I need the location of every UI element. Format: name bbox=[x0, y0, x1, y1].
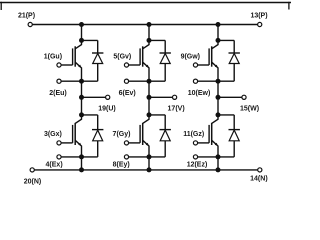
wire: gate lead of Q6 bbox=[198, 142, 210, 144]
wire: gate lead of Q2 bbox=[61, 142, 73, 144]
svg-text:6(Ev): 6(Ev) bbox=[119, 90, 136, 97]
wire: upper emitter to output tap (W) bbox=[217, 81, 219, 97]
transistor Q1 upper U (IGBT) bbox=[73, 40, 82, 81]
svg-text:3(Gx): 3(Gx) bbox=[44, 131, 62, 138]
wire: upper emitter sense (W) bbox=[198, 80, 218, 82]
svg-text:21(P): 21(P) bbox=[18, 12, 35, 19]
svg-text:7(Gy): 7(Gy) bbox=[113, 131, 131, 138]
wire: gate lead of Q1 bbox=[61, 64, 73, 66]
svg-text:12(Ez): 12(Ez) bbox=[187, 162, 208, 169]
svg-text:17(V): 17(V) bbox=[168, 106, 185, 113]
node U: lower emitter junction bbox=[79, 154, 84, 159]
svg-text:1(Gu): 1(Gu) bbox=[44, 53, 62, 60]
node W: lower emitter junction bbox=[216, 154, 221, 159]
wire: gate lead of Q5 bbox=[198, 64, 210, 66]
wire: output lead (U) bbox=[82, 96, 106, 98]
diode D6 lower W (free-wheel) bbox=[229, 115, 240, 157]
wire: lower emitter to diode D6 anode bbox=[218, 156, 234, 158]
terminal 3(Gx) gate pin bbox=[57, 141, 61, 145]
wire: P bus to upper collector (V) bbox=[148, 25, 150, 41]
transistor Q5 upper W (IGBT) bbox=[209, 40, 218, 81]
node W: lower collector junction bbox=[216, 112, 221, 117]
transistor Q4 lower V (IGBT) bbox=[140, 115, 149, 157]
wire: lower emitter to N bus (V) bbox=[148, 157, 150, 170]
terminal 5(Gv) gate pin bbox=[124, 63, 128, 67]
wire: lower collector to diode D4 cathode bbox=[149, 114, 165, 116]
terminal 17(V) output pin bbox=[173, 95, 177, 99]
transistor Q2 lower U (IGBT) bbox=[73, 115, 82, 157]
terminal 7(Gy) gate pin bbox=[124, 141, 128, 145]
wire: upper collector to diode D3 cathode bbox=[149, 39, 165, 41]
terminal 8(Ey) emitter pin bbox=[124, 155, 128, 159]
terminal 11(Gz) gate pin bbox=[193, 141, 197, 145]
node V: upper collector junction bbox=[147, 38, 152, 43]
terminal 9(Gw) gate pin bbox=[193, 63, 197, 67]
wire: upper emitter to diode D1 anode bbox=[82, 80, 98, 82]
wire: output tap to lower collector (V) bbox=[148, 97, 150, 115]
wire: lower emitter to N bus (W) bbox=[217, 157, 219, 170]
terminal 21(P) bbox=[28, 22, 32, 26]
svg-text:13(P): 13(P) bbox=[250, 12, 267, 19]
wire: upper collector to diode D1 cathode bbox=[82, 39, 98, 41]
wire: output tap to lower collector (U) bbox=[81, 97, 83, 115]
wire: upper emitter to output tap (U) bbox=[81, 81, 83, 97]
terminal 19(U) output pin bbox=[106, 95, 110, 99]
terminal 6(Ev) emitter pin bbox=[124, 79, 128, 83]
diode D3 upper V (free-wheel) bbox=[160, 40, 171, 81]
wire: lower emitter sense (W) bbox=[198, 156, 218, 158]
diode D2 lower U (free-wheel) bbox=[92, 115, 103, 157]
terminal 13(P) bbox=[258, 22, 262, 26]
border frame top rule bbox=[0, 2, 291, 4]
transistor Q6 lower W (IGBT) bbox=[209, 115, 218, 157]
wire: upper emitter to output tap (V) bbox=[148, 81, 150, 97]
wire: gate lead of Q3 bbox=[129, 64, 141, 66]
wire: P bus to upper collector (W) bbox=[217, 25, 219, 41]
node W: P-bus junction bbox=[216, 22, 221, 27]
diode D1 upper U (free-wheel) bbox=[92, 40, 103, 81]
wire: lower emitter to N bus (U) bbox=[81, 157, 83, 170]
svg-text:4(Ex): 4(Ex) bbox=[46, 162, 63, 169]
terminal 10(Ew) emitter pin bbox=[193, 79, 197, 83]
wire: N bus (bottom rail) bbox=[34, 169, 257, 171]
wire: output tap to lower collector (W) bbox=[217, 97, 219, 115]
wire: P bus to upper collector (U) bbox=[81, 25, 83, 41]
wire: lower emitter sense (U) bbox=[61, 156, 81, 158]
node W: output tap junction bbox=[216, 95, 221, 100]
svg-text:2(Eu): 2(Eu) bbox=[49, 90, 67, 97]
wire: output lead (W) bbox=[218, 96, 242, 98]
svg-text:8(Ey): 8(Ey) bbox=[113, 162, 130, 169]
node U: N-bus junction bbox=[79, 167, 84, 172]
node V: P-bus junction bbox=[147, 22, 152, 27]
border frame right rule bbox=[288, 2, 290, 10]
wire: lower collector to diode D6 cathode bbox=[218, 114, 234, 116]
wire: lower emitter to diode D2 anode bbox=[82, 156, 98, 158]
wire: lower emitter sense (V) bbox=[129, 156, 149, 158]
node U: output tap junction bbox=[79, 95, 84, 100]
terminal 4(Ex) emitter pin bbox=[57, 155, 61, 159]
wire: P bus (top rail) bbox=[32, 24, 257, 26]
node V: output tap junction bbox=[147, 95, 152, 100]
wire: lower collector to diode D2 cathode bbox=[82, 114, 98, 116]
wire: upper emitter sense (V) bbox=[129, 80, 149, 82]
diode D5 upper W (free-wheel) bbox=[229, 40, 240, 81]
node W: upper collector junction bbox=[216, 38, 221, 43]
svg-text:19(U): 19(U) bbox=[98, 106, 116, 113]
terminal 15(W) output pin bbox=[242, 95, 246, 99]
wire: upper emitter to diode D5 anode bbox=[218, 80, 234, 82]
node W: upper emitter junction bbox=[216, 79, 221, 84]
node W: N-bus junction bbox=[216, 167, 221, 172]
transistor Q3 upper V (IGBT) bbox=[140, 40, 149, 81]
border frame left rule bbox=[0, 2, 2, 10]
terminal 12(Ez) emitter pin bbox=[193, 155, 197, 159]
wire: output lead (V) bbox=[149, 96, 173, 98]
svg-text:20(N): 20(N) bbox=[24, 178, 42, 185]
node V: N-bus junction bbox=[147, 167, 152, 172]
terminal 1(Gu) gate pin bbox=[57, 63, 61, 67]
wire: upper emitter to diode D3 anode bbox=[149, 80, 165, 82]
node U: lower collector junction bbox=[79, 112, 84, 117]
node U: upper emitter junction bbox=[79, 79, 84, 84]
svg-text:9(Gw): 9(Gw) bbox=[181, 53, 200, 60]
svg-text:10(Ew): 10(Ew) bbox=[188, 90, 211, 97]
diode D4 lower V (free-wheel) bbox=[160, 115, 171, 157]
node V: upper emitter junction bbox=[147, 79, 152, 84]
wire: lower emitter to diode D4 anode bbox=[149, 156, 165, 158]
node V: lower emitter junction bbox=[147, 154, 152, 159]
terminal 14(N) bbox=[258, 168, 262, 172]
terminal 2(Eu) emitter pin bbox=[57, 79, 61, 83]
wire: gate lead of Q4 bbox=[129, 142, 141, 144]
node V: lower collector junction bbox=[147, 112, 152, 117]
node U: P-bus junction bbox=[79, 22, 84, 27]
terminal 20(N) bbox=[30, 168, 34, 172]
node U: upper collector junction bbox=[79, 38, 84, 43]
wire: upper emitter sense (U) bbox=[61, 80, 81, 82]
wire: upper collector to diode D5 cathode bbox=[218, 39, 234, 41]
svg-text:11(Gz): 11(Gz) bbox=[183, 131, 204, 138]
svg-text:15(W): 15(W) bbox=[240, 106, 259, 113]
svg-text:14(N): 14(N) bbox=[250, 175, 268, 182]
svg-text:5(Gv): 5(Gv) bbox=[113, 53, 131, 60]
